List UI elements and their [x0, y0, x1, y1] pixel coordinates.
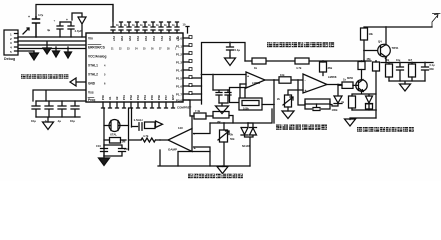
pin 10 stub [186, 27, 189, 34]
capacitor C3 [66, 18, 82, 37]
svg-text:+: + [194, 146, 197, 151]
resistor R20 [358, 60, 365, 80]
buffer arrow [156, 121, 163, 128]
wire comparator row [210, 109, 272, 123]
wire top-right power [364, 26, 432, 28]
svg-text:P24: P24 [136, 36, 140, 41]
svg-text:Vss: Vss [88, 91, 94, 95]
IC U1 [86, 33, 183, 102]
svg-text:LM358: LM358 [252, 81, 261, 85]
svg-text:1k: 1k [343, 78, 346, 82]
svg-text:0.1μ: 0.1μ [235, 48, 241, 52]
wire Q4 collector [385, 27, 387, 45]
svg-text:Debug: Debug [4, 57, 15, 61]
svg-text:2k: 2k [277, 97, 280, 101]
wire COMPREF to R12 [183, 100, 194, 116]
ground G13 [400, 84, 411, 91]
wire A1 output [265, 79, 279, 81]
capacitor C12 [227, 42, 241, 56]
annotation text top-right [267, 42, 334, 47]
svg-text:10μ: 10μ [70, 119, 75, 123]
svg-text:P37: P37 [164, 95, 168, 100]
wire Q5 emitter [352, 91, 376, 96]
svg-text:+: + [305, 89, 307, 93]
svg-text:P1.3: P1.3 [176, 61, 183, 65]
svg-text:36k: 36k [328, 66, 333, 70]
capacitor C17 [422, 62, 435, 81]
svg-text:+: + [54, 19, 56, 23]
wire A3 feedback box [178, 152, 210, 167]
svg-text:5k: 5k [230, 133, 233, 137]
diode D3 [330, 85, 342, 107]
svg-text:P32: P32 [129, 95, 133, 100]
svg-text:50k: 50k [230, 137, 235, 141]
resistor R23 [361, 28, 374, 62]
ground G6 [99, 156, 110, 166]
transistor Q4 [378, 40, 399, 59]
resistor R15 [320, 60, 333, 75]
svg-text:P1.2: P1.2 [176, 53, 183, 57]
resistor R19 [338, 78, 353, 89]
capacitor C8 [70, 101, 79, 123]
svg-text:P1.5: P1.5 [176, 77, 183, 81]
wire coupling loop [228, 88, 245, 103]
svg-text:+: + [247, 75, 249, 79]
op-amp A3 [168, 126, 197, 152]
svg-text:N4148: N4148 [242, 144, 250, 148]
svg-text:100k: 100k [332, 108, 338, 112]
svg-text:P1.7: P1.7 [176, 93, 183, 97]
svg-text:P35: P35 [150, 95, 154, 100]
resistor R12 [194, 109, 213, 119]
capacitor C14 [219, 90, 231, 103]
svg-text:TIP41: TIP41 [392, 46, 399, 50]
resistor array RP1 above IC [111, 5, 179, 34]
ground G3 [53, 47, 60, 57]
capacitor C11 [104, 145, 129, 156]
svg-text:4.7k: 4.7k [296, 66, 302, 70]
resistor R17 [279, 73, 303, 83]
capacitor C10 [96, 144, 108, 156]
capacitor C16 [396, 59, 404, 81]
svg-text:4μ: 4μ [47, 28, 51, 32]
svg-text:1k: 1k [254, 66, 258, 70]
wire dual rails below IC [129, 108, 132, 150]
wire cap bank rails [36, 101, 86, 122]
wire A1 inputs [202, 75, 247, 91]
svg-text:Vin: Vin [88, 37, 93, 41]
capacitor C2 [47, 19, 71, 38]
wire A3 base riser [191, 116, 193, 129]
svg-text:X2: X2 [115, 96, 119, 100]
wire top power rail [36, 5, 113, 22]
svg-text:10k: 10k [369, 32, 374, 36]
svg-text:10k: 10k [385, 59, 390, 62]
annotation arrow left [70, 78, 86, 86]
svg-text:RST: RST [171, 94, 175, 100]
capacitor C1 [28, 13, 44, 37]
capacitor C5 [31, 101, 40, 123]
IC U1 bottom pin leads [102, 102, 175, 108]
power arrow down [72, 13, 86, 37]
svg-text:P31: P31 [122, 95, 126, 100]
wire feedback top [202, 43, 246, 105]
svg-text:4.7μF: 4.7μF [75, 29, 83, 33]
wire Q4 base [364, 50, 378, 52]
no-connect slash [23, 28, 29, 34]
wire rail to soft-switch [350, 118, 376, 120]
ground G5 [43, 122, 54, 130]
resistor R12b [213, 112, 233, 125]
svg-text:X1: X1 [108, 96, 112, 100]
svg-text:45k: 45k [367, 58, 372, 61]
ground G8 [225, 56, 236, 66]
svg-text:10μ: 10μ [31, 119, 36, 123]
svg-text:GND: GND [88, 82, 96, 86]
connector J1 Debug [4, 30, 18, 61]
resistor R10 [104, 138, 126, 144]
ground G7 [217, 166, 228, 174]
annotation text bottom-right [357, 127, 414, 132]
resistor R25 [408, 59, 416, 81]
svg-text:10k: 10k [280, 73, 285, 77]
svg-text:P33: P33 [136, 95, 140, 100]
svg-text:100k: 100k [243, 106, 249, 110]
svg-text:ERROR/CS: ERROR/CS [88, 46, 105, 50]
svg-text:P1.6: P1.6 [176, 85, 183, 89]
svg-text:P3.6: P3.6 [176, 99, 183, 103]
capacitor C6 [44, 101, 53, 123]
wire feedback mid [245, 60, 371, 62]
annotation text bottom-center [188, 174, 243, 179]
svg-text:P22: P22 [152, 36, 156, 41]
wire A2 plus input [288, 90, 303, 95]
wire Q4 emitter to rail [381, 57, 433, 63]
svg-text:P26: P26 [120, 36, 124, 41]
svg-text:P23: P23 [144, 36, 148, 41]
resistor R16 feedback A1 [239, 79, 275, 123]
svg-text:1k: 1k [341, 101, 344, 104]
trimpot RP3 [277, 95, 293, 111]
svg-text:+: + [28, 15, 30, 19]
svg-text:VCC/Analog: VCC/Analog [88, 55, 106, 59]
resistor R24 [385, 59, 393, 81]
svg-text:0.1μ: 0.1μ [430, 64, 435, 67]
svg-text:4.7μ: 4.7μ [38, 13, 44, 17]
wire bus J1 to U1 [18, 37, 86, 49]
svg-text:P30: P30 [101, 95, 105, 100]
wire GND bus to cap bank [33, 90, 86, 101]
svg-text:XTAL: XTAL [110, 133, 117, 137]
svg-text:+: + [66, 18, 68, 22]
svg-text:OAMP: OAMP [168, 148, 177, 152]
wire A3 inputs [194, 123, 211, 152]
wire rail bottom right [389, 81, 425, 84]
svg-text:C10: C10 [96, 144, 101, 148]
svg-text:XTAL1: XTAL1 [88, 64, 98, 68]
svg-text:P1.1: P1.1 [176, 45, 183, 49]
svg-text:P34: P34 [143, 95, 147, 100]
svg-text:P21: P21 [160, 36, 164, 41]
annotation text block left [21, 74, 68, 78]
resistor R22 [341, 96, 355, 110]
resistor R18 capacitor C15 feedback A2 [297, 79, 338, 112]
wire bottom rail [158, 150, 250, 166]
svg-text:Q4: Q4 [378, 40, 382, 44]
ground G1 [30, 51, 39, 60]
wire A2 output [327, 84, 342, 86]
wire emitter bottom [352, 109, 376, 111]
svg-text:Prog: Prog [88, 98, 95, 102]
svg-text:P1.0: P1.0 [176, 37, 183, 41]
IC U1 bottom pin labels [101, 94, 175, 100]
op-amp A2 [303, 74, 337, 93]
IC U1 right pin leads [183, 38, 189, 100]
op-amp A1 [246, 72, 265, 89]
inductor L1 [132, 118, 156, 130]
svg-text:7.4k: 7.4k [195, 109, 201, 113]
ground G10 [216, 103, 229, 114]
svg-text:P27: P27 [112, 36, 116, 41]
ground G11 [282, 111, 294, 119]
svg-text:8050: 8050 [347, 76, 353, 80]
svg-text:XTAL2: XTAL2 [88, 73, 98, 77]
svg-text:10μ: 10μ [396, 59, 401, 62]
svg-text:4.7k: 4.7k [143, 134, 149, 138]
resistor R11 [129, 134, 169, 142]
diode D4 [366, 96, 373, 110]
ground G14 [345, 119, 356, 126]
resistor R13 [252, 58, 266, 70]
zener D2 [242, 123, 257, 166]
annotation text mid-right [276, 125, 327, 130]
transistor Q5 [347, 76, 367, 92]
svg-text:P20: P20 [168, 36, 172, 41]
power arrow up-right [432, 14, 440, 28]
svg-text:MΩ: MΩ [430, 68, 434, 71]
svg-text:LM358: LM358 [328, 75, 337, 79]
zener D1 [241, 123, 248, 135]
ground G4 [65, 47, 72, 58]
capacitor C7 [57, 101, 66, 123]
svg-text:1.5mH: 1.5mH [134, 118, 143, 122]
svg-text:P1.4: P1.4 [176, 69, 183, 73]
resistor R14 [295, 58, 309, 70]
capacitor C13 [213, 90, 228, 103]
IC U1 right pin labels [176, 37, 183, 103]
svg-text:4k7: 4k7 [408, 59, 413, 62]
svg-text:.1μ: .1μ [57, 119, 61, 123]
wire [18, 51, 34, 52]
resistor R21 [367, 58, 380, 118]
ground G2 [43, 42, 51, 54]
IC U1 top pin numbers [111, 48, 177, 51]
crystal Y1 [104, 108, 129, 156]
trimpot RP2 [218, 123, 235, 166]
IC U1 top pin labels [112, 36, 180, 41]
svg-text:14C: 14C [178, 126, 183, 130]
svg-text:P36: P36 [157, 95, 161, 100]
svg-text:P25: P25 [128, 36, 132, 41]
